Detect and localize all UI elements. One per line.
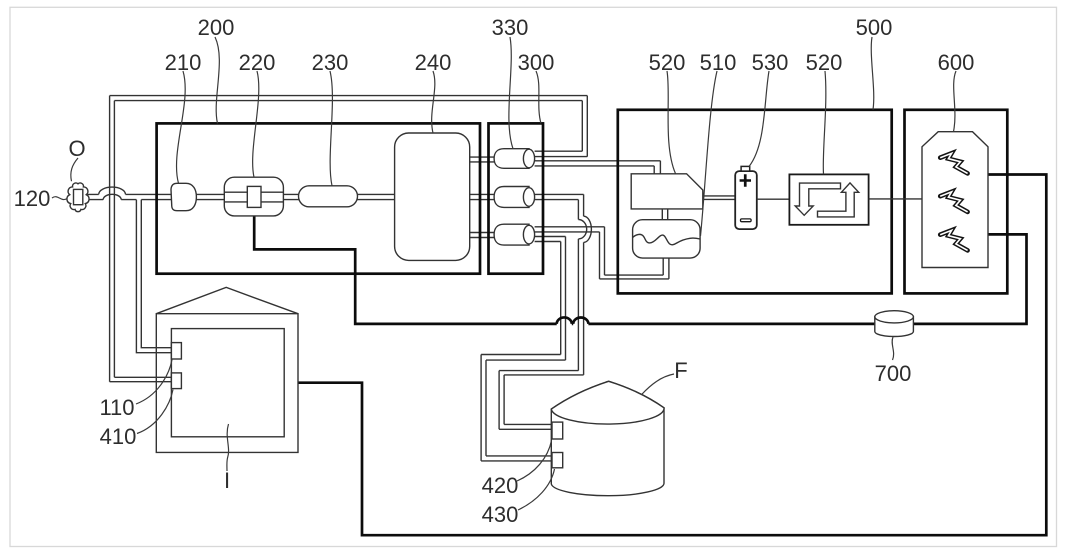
wire main fuel pipe from cloud 120 to pump 210 with hop xyxy=(88,194,172,199)
wire pipe 230 to 240 xyxy=(358,194,395,199)
wire bumps over pipes xyxy=(557,317,589,323)
block 330 injector unit xyxy=(489,123,544,273)
leader 430 xyxy=(518,469,555,510)
filter 230 xyxy=(299,186,358,207)
house outer wall xyxy=(156,287,298,452)
svg-text:410: 410 xyxy=(100,424,137,449)
stack canister 600 xyxy=(922,132,988,268)
svg-text:530: 530 xyxy=(752,50,789,75)
leader 300 xyxy=(536,71,541,123)
wire pipe inside 220 xyxy=(224,192,283,202)
tank body xyxy=(551,381,664,495)
svg-text:330: 330 xyxy=(492,15,529,40)
leader 410 xyxy=(137,390,173,434)
svg-text:210: 210 xyxy=(165,50,202,75)
cloud 120 fuel source xyxy=(67,183,89,212)
valve 220 inner gate xyxy=(247,186,261,207)
battery 530 top tab xyxy=(741,166,750,171)
wire hop arch over vertical pipe xyxy=(99,187,126,200)
pipe reformer to battery 530 xyxy=(703,196,735,200)
wire pipe 210 to 220 xyxy=(196,194,224,199)
leader 110 xyxy=(136,360,172,405)
leader 520 reformer xyxy=(667,71,676,174)
leader 120 xyxy=(52,197,67,200)
wire pipe from injector1 up over top down to house lower port (outer wall) xyxy=(535,96,588,157)
house port 410 xyxy=(171,373,181,389)
battery 530 body xyxy=(735,171,757,229)
injector 2 body xyxy=(494,187,529,208)
svg-text:700: 700 xyxy=(875,361,912,386)
svg-text:520: 520 xyxy=(649,50,686,75)
injector 1 body xyxy=(494,149,529,169)
svg-text:520: 520 xyxy=(806,50,843,75)
leader 500 xyxy=(871,37,874,110)
pump 210 xyxy=(171,183,196,210)
lightning bolt 1 xyxy=(940,153,967,173)
svg-text:200: 200 xyxy=(198,15,235,40)
wire converter to stack xyxy=(869,198,922,200)
house port 110 xyxy=(171,343,181,359)
svg-text:I: I xyxy=(224,468,230,493)
water wave in 510 xyxy=(633,234,701,244)
wire pipe injector3 lower to tank lower port xyxy=(535,237,566,242)
svg-text:500: 500 xyxy=(856,15,893,40)
wire pipe injector2 down to tank upper port with hop xyxy=(535,194,584,199)
injector 3 body xyxy=(494,224,529,245)
leader 330 xyxy=(509,37,513,149)
block 500 power unit xyxy=(618,110,892,294)
block 600 stack unit xyxy=(905,110,1008,294)
svg-text:120: 120 xyxy=(14,186,51,211)
tank port 430 xyxy=(552,453,563,468)
wire input pipes 240 to injectors xyxy=(470,157,494,162)
leader 520 converter xyxy=(823,71,826,174)
sensor 700 puck xyxy=(875,317,914,337)
wire thick line valve 220 to controller 600 via 700 xyxy=(254,216,1026,324)
battery plus symbol xyxy=(740,174,751,187)
valve 220 xyxy=(224,177,283,216)
svg-text:300: 300 xyxy=(518,50,555,75)
svg-text:F: F xyxy=(674,358,687,383)
pipe reformer to humidifier xyxy=(662,209,667,220)
svg-text:240: 240 xyxy=(415,50,452,75)
block 200 fuel processing unit xyxy=(157,123,480,273)
svg-text:420: 420 xyxy=(482,473,519,498)
battery minus symbol xyxy=(741,219,752,222)
injector 2 nozzle ellipse xyxy=(523,188,534,207)
svg-text:110: 110 xyxy=(99,395,134,420)
leader I xyxy=(227,424,229,471)
svg-text:600: 600 xyxy=(938,50,975,75)
injector 3 nozzle ellipse xyxy=(523,225,534,244)
tank top rim xyxy=(551,381,664,424)
svg-text:430: 430 xyxy=(482,502,519,527)
leader O xyxy=(71,158,78,181)
leader 700 xyxy=(892,337,894,360)
wire branch pipe down to house upper port xyxy=(136,200,171,353)
leader 210 xyxy=(177,71,186,183)
leader 510 xyxy=(701,71,718,236)
leader 600 xyxy=(954,71,957,132)
wire battery to converter 520 xyxy=(757,198,790,200)
wire thick line house to stack 600 loop xyxy=(298,175,1046,536)
lightning bolt 2 xyxy=(940,192,967,212)
converter arrow down-left xyxy=(795,183,840,215)
humidifier 510 xyxy=(633,220,701,258)
house inner room xyxy=(171,329,284,437)
svg-text:220: 220 xyxy=(239,50,276,75)
leader 230 xyxy=(330,71,332,186)
converter arrow up-right xyxy=(818,183,859,217)
svg-text:510: 510 xyxy=(700,50,737,75)
leader 420 xyxy=(517,441,552,482)
wire pipe injector1 to reformer 520 xyxy=(535,161,661,166)
svg-text:O: O xyxy=(68,136,85,161)
injector 1 nozzle ellipse xyxy=(523,149,534,168)
converter 520 loop box xyxy=(789,174,868,224)
leader F xyxy=(642,374,675,395)
tank port 420 xyxy=(552,422,563,439)
vaporizer 240 xyxy=(395,133,470,260)
wire pipe 220 to 230 xyxy=(283,194,298,199)
valve in cloud xyxy=(74,189,83,204)
leader 220 xyxy=(253,71,259,177)
leader 530 xyxy=(749,71,769,167)
wire pipe injector3 upper to humidifier 510 bottom xyxy=(535,227,605,232)
lightning bolt 3 xyxy=(940,230,967,250)
reformer 520 folder shape xyxy=(631,174,703,209)
svg-text:230: 230 xyxy=(312,50,349,75)
leader 200 xyxy=(215,37,219,123)
leader 240 xyxy=(432,71,435,133)
